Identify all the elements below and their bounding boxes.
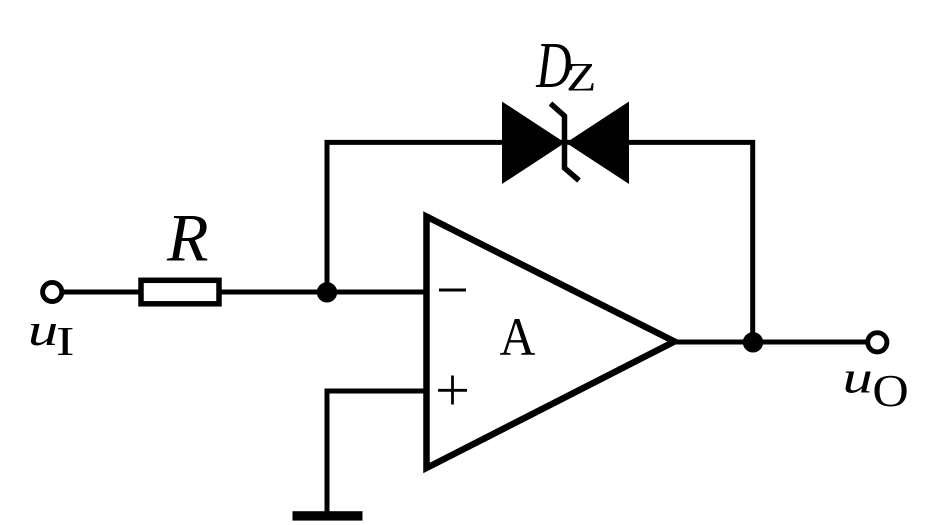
op-amp plus sign [438,389,467,392]
node: inverting input junction [317,282,337,302]
svg-text:O: O [872,366,908,416]
svg-text:u: u [28,305,58,356]
resistor R [141,280,219,304]
zener pair D_Z: right diode [566,102,629,185]
svg-text:Z: Z [566,55,596,100]
output terminal circle [868,333,887,352]
wire: feedback loop (left riser, top run, right drop) [327,142,753,342]
ground [293,511,363,520]
wire: op-amp output to output terminal [672,340,866,345]
wire: input terminal to op-amp inverting input [60,290,429,295]
wire: non-inverting input to ground [327,391,429,513]
node: output junction [743,332,763,352]
svg-text:A: A [500,308,536,367]
svg-text:R: R [166,200,209,276]
op-amp minus sign [439,289,466,292]
zener pair D_Z: cathode bar with hooks [551,104,580,181]
input terminal circle [43,282,62,301]
op-amp U1 [427,217,675,469]
svg-text:u: u [843,352,873,403]
svg-text:I: I [56,319,74,364]
zener pair D_Z: left diode [502,102,565,185]
